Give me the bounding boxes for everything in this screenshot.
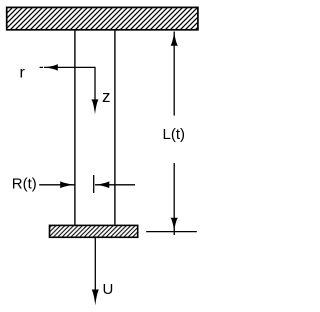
L(t) dimension wire lower segment — [173, 163, 175, 235]
top support bar (hatched ceiling) — [7, 7, 198, 29]
bottom plate (hatched) — [50, 225, 138, 237]
svg-text:U: U — [103, 281, 114, 298]
z-axis arrowhead (points down) — [92, 99, 99, 114]
R(t) leader wire right — [95, 184, 135, 186]
U velocity wire — [94, 238, 96, 291]
L(t) up arrowhead at bar — [171, 31, 178, 46]
U arrowhead (points down) — [92, 290, 99, 306]
svg-text:R(t): R(t) — [12, 176, 37, 193]
r-axis arrowhead (points left) — [44, 64, 58, 71]
L(t) dimension wire upper segment — [173, 32, 175, 116]
R(t) leader wire left — [39, 184, 74, 186]
svg-text:r: r — [20, 64, 26, 81]
centerline tick — [93, 175, 95, 193]
L(t) down arrowhead at plate level — [171, 218, 178, 232]
rod right wall — [114, 31, 116, 225]
r-axis wire — [44, 66, 95, 68]
svg-text:z: z — [102, 87, 111, 106]
extension line at plate level — [146, 231, 197, 233]
R(t) arrowhead pointing left at centerline — [95, 181, 110, 188]
z-axis wire — [94, 67, 96, 101]
rod left wall — [74, 31, 76, 225]
R(t) arrowhead pointing right at rod wall — [60, 181, 75, 188]
svg-text:L(t): L(t) — [163, 126, 186, 143]
